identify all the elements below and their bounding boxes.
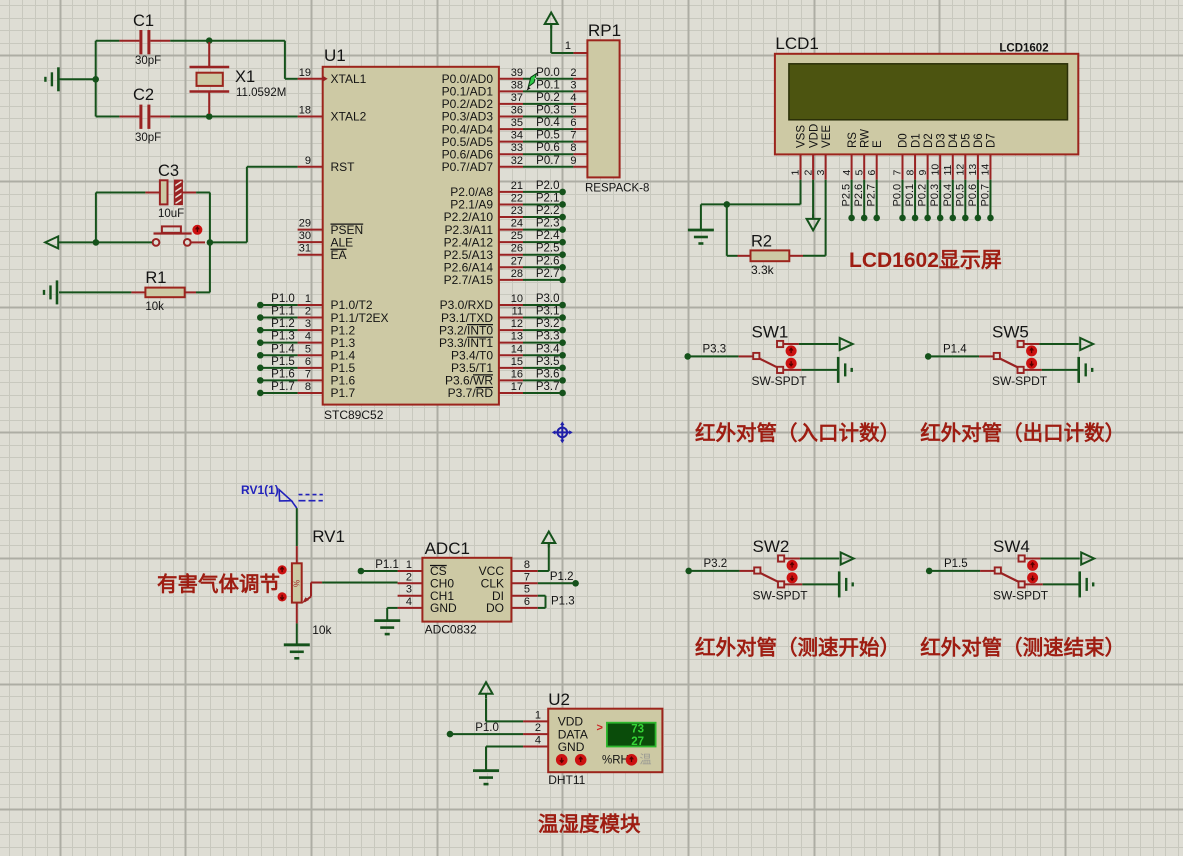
svg-text:SW2: SW2 [753, 537, 790, 556]
svg-text:P2.6: P2.6 [853, 184, 865, 207]
label ADC0832 [425, 623, 477, 637]
svg-text:VEE: VEE [821, 125, 833, 148]
wire button right [191, 241, 205, 243]
svg-text:5: 5 [570, 104, 576, 116]
svg-text:RP1: RP1 [588, 21, 621, 40]
label C2 [133, 86, 154, 104]
caption infrared exit [920, 421, 1125, 445]
caption infrared entry [695, 421, 900, 445]
svg-text:P2.1: P2.1 [536, 192, 560, 204]
switch SW5 infrared exit [925, 323, 1093, 389]
wire VEE to R2 [803, 180, 826, 256]
probe RV1(1) [241, 483, 323, 508]
label DHT11 [548, 773, 585, 787]
svg-text:ADC1: ADC1 [425, 539, 470, 558]
svg-text:24: 24 [511, 218, 523, 230]
svg-text:U1: U1 [324, 46, 346, 65]
svg-text:P1.3: P1.3 [271, 331, 295, 343]
label X1 [235, 68, 255, 86]
svg-text:2: 2 [305, 306, 311, 318]
svg-text:RW: RW [859, 129, 871, 148]
svg-text:SW-SPDT: SW-SPDT [753, 589, 809, 603]
svg-text:15: 15 [511, 356, 523, 368]
svg-text:DO: DO [486, 601, 504, 615]
svg-text:P2.6: P2.6 [536, 255, 560, 267]
resistor R2 [738, 250, 804, 261]
net P1.2 [538, 571, 579, 587]
terminal arrow reset [45, 236, 58, 248]
svg-text:XTAL2: XTAL2 [331, 110, 367, 124]
label LCD1602 model [999, 43, 1048, 55]
svg-text:X1: X1 [235, 68, 255, 86]
svg-text:P1.4: P1.4 [271, 343, 295, 355]
svg-text:EA: EA [331, 248, 347, 262]
svg-text:P2.5: P2.5 [841, 184, 853, 207]
svg-text:P3.7/RD: P3.7/RD [448, 386, 494, 400]
RV1 wiper [302, 583, 311, 604]
wire C3 down left [95, 193, 97, 243]
wire VSS to ground [701, 180, 801, 230]
svg-text:16: 16 [511, 368, 523, 380]
svg-text:D3: D3 [935, 133, 947, 148]
svg-text:P2.3: P2.3 [536, 218, 560, 230]
lcd LCD1 body [775, 54, 1078, 155]
lcd data and control nets P2.5-P2.7 P0.0-P0.7 [841, 180, 994, 222]
svg-text:P0.7/AD7: P0.7/AD7 [442, 160, 494, 174]
caption LCD1602 display [849, 249, 1002, 272]
svg-text:14: 14 [511, 343, 523, 355]
svg-text:P0.7: P0.7 [536, 155, 560, 167]
svg-text:P0.4: P0.4 [942, 184, 954, 207]
dht buttons [556, 753, 652, 767]
wire reset to RST [210, 167, 298, 243]
RV1 toggle up [278, 565, 287, 574]
svg-text:9: 9 [305, 155, 311, 167]
ADC1 left pins CS CH0 CH1 GND [398, 559, 457, 615]
svg-text:4: 4 [570, 92, 576, 104]
svg-text:12: 12 [511, 318, 523, 330]
svg-text:P0.5: P0.5 [954, 184, 966, 207]
svg-text:35: 35 [511, 117, 523, 129]
wire C3 left [96, 192, 159, 194]
svg-text:温湿度模块: 温湿度模块 [538, 812, 641, 836]
crystal X1 [190, 42, 230, 114]
label RV1 [312, 527, 345, 546]
U2 VDD wire [486, 698, 523, 721]
label 10k RV1 [312, 623, 332, 637]
svg-text:SW1: SW1 [752, 323, 789, 342]
wire C3 down right [209, 193, 211, 293]
node X1 bottom [206, 113, 213, 120]
dht display [597, 722, 656, 748]
respack RP1 body [587, 40, 619, 177]
wire wiper to ADC CH0 [311, 582, 398, 584]
svg-text:P1.4: P1.4 [943, 344, 967, 356]
label 10k R1 [145, 301, 164, 313]
svg-text:P0.7: P0.7 [979, 184, 991, 207]
svg-text:27: 27 [631, 736, 644, 748]
svg-text:2: 2 [406, 571, 412, 583]
svg-text:P3.2: P3.2 [536, 318, 560, 330]
svg-text:10uF: 10uF [158, 208, 184, 220]
node VSS R2 [724, 201, 731, 208]
node reset left [93, 239, 100, 246]
RV1 bottom lead [296, 603, 298, 645]
svg-text:7: 7 [305, 368, 311, 380]
svg-text:5: 5 [524, 584, 530, 596]
U1 port0 pins P0.0/AD0-P0.7/AD7 to RP1 [442, 67, 588, 174]
U1 left pins XTAL1 XTAL2 RST PSEN ALE EA [298, 67, 367, 262]
svg-text:P0.3: P0.3 [536, 104, 560, 116]
wire caps left [96, 41, 120, 117]
svg-text:33: 33 [511, 142, 523, 154]
svg-text:P1.6: P1.6 [271, 368, 295, 380]
net P1.3 bracket [538, 596, 575, 608]
ground ADC [374, 621, 400, 635]
svg-text:30pF: 30pF [135, 55, 161, 67]
svg-text:红外对管（测速结束）: 红外对管（测速结束） [920, 636, 1125, 660]
svg-text:29: 29 [299, 218, 311, 230]
svg-text:P0.4: P0.4 [536, 117, 560, 129]
power down VDD [807, 214, 820, 230]
svg-text:P1.0: P1.0 [475, 722, 499, 734]
svg-text:D1: D1 [910, 133, 922, 148]
button toggle [192, 225, 202, 235]
svg-text:R1: R1 [145, 269, 166, 287]
wire C1 to X1 node [170, 40, 285, 42]
svg-text:8: 8 [305, 381, 311, 393]
svg-text:D0: D0 [898, 133, 910, 148]
svg-text:P3.3: P3.3 [703, 344, 727, 356]
svg-text:1: 1 [406, 559, 412, 571]
svg-text:RESPACK-8: RESPACK-8 [585, 183, 649, 195]
svg-text:P0.1: P0.1 [904, 184, 916, 207]
resistor R1 [59, 288, 210, 298]
wire probe to RV1 [296, 508, 298, 563]
U2 pins VDD DATA GND [523, 709, 588, 753]
svg-text:39: 39 [511, 67, 523, 79]
svg-text:6: 6 [866, 170, 878, 176]
label ADC1 [425, 539, 470, 558]
svg-text:37: 37 [511, 92, 523, 104]
svg-text:%: % [293, 580, 302, 587]
svg-text:17: 17 [511, 381, 523, 393]
net P1.0 [447, 722, 523, 737]
svg-text:R2: R2 [751, 233, 772, 251]
svg-text:9: 9 [917, 170, 929, 176]
svg-text:12: 12 [955, 164, 967, 176]
svg-text:P1.7: P1.7 [271, 381, 295, 393]
svg-text:P0.6: P0.6 [536, 142, 560, 154]
svg-text:23: 23 [511, 205, 523, 217]
label C3 [158, 162, 179, 180]
svg-text:1: 1 [535, 709, 541, 721]
label 3.3k [751, 263, 775, 277]
label STC89C52 [324, 408, 384, 422]
wire terminal to button [58, 241, 152, 243]
svg-text:DHT11: DHT11 [548, 773, 585, 787]
svg-text:3: 3 [570, 79, 576, 91]
svg-text:ADC0832: ADC0832 [425, 623, 477, 637]
label C1 [133, 12, 154, 30]
svg-text:73: 73 [631, 724, 644, 736]
svg-text:2: 2 [570, 67, 576, 79]
svg-text:2: 2 [802, 170, 814, 176]
svg-text:4: 4 [841, 170, 853, 176]
svg-text:8: 8 [570, 142, 576, 154]
svg-text:D6: D6 [973, 133, 985, 148]
svg-text:P3.7: P3.7 [536, 381, 560, 393]
svg-text:VSS: VSS [796, 125, 808, 148]
label U1 [324, 46, 346, 65]
svg-text:1: 1 [565, 40, 571, 52]
mcu U1 body [323, 67, 499, 405]
label 30pF C2 [135, 132, 161, 144]
svg-text:RV1(1): RV1(1) [241, 483, 279, 497]
svg-text:P2.5: P2.5 [536, 243, 560, 255]
svg-text:P1.5: P1.5 [944, 558, 968, 570]
switch SW4 speed end [926, 537, 1094, 603]
svg-text:P1.5: P1.5 [271, 356, 295, 368]
svg-text:10: 10 [929, 164, 941, 176]
svg-text:7: 7 [524, 571, 530, 583]
svg-text:P3.0: P3.0 [536, 293, 560, 305]
svg-text:P1.7: P1.7 [331, 386, 356, 400]
svg-text:P1.2: P1.2 [271, 318, 295, 330]
svg-text:3: 3 [815, 170, 827, 176]
svg-text:LCD1: LCD1 [775, 34, 818, 53]
svg-text:P1.3: P1.3 [551, 596, 575, 608]
node reset right [207, 239, 214, 246]
svg-text:RST: RST [331, 160, 356, 174]
svg-text:22: 22 [511, 192, 523, 204]
svg-text:19: 19 [299, 67, 311, 79]
svg-text:SW4: SW4 [993, 537, 1030, 556]
label U2 [548, 690, 570, 709]
svg-text:9: 9 [570, 155, 576, 167]
svg-text:P3.4: P3.4 [536, 343, 560, 355]
U1 port2 pins P2.0/A8-P2.7/A15 with net labels [444, 180, 566, 287]
svg-text:28: 28 [511, 268, 523, 280]
ADC1 right pins VCC CLK DI DO [479, 559, 538, 615]
svg-text:RS: RS [847, 132, 859, 148]
svg-text:P2.7/A15: P2.7/A15 [444, 273, 494, 287]
ADC GND wire [387, 608, 397, 621]
label LCD1 [775, 34, 818, 53]
ground R1 [44, 280, 57, 304]
svg-text:14: 14 [980, 164, 992, 176]
caption speed start [695, 636, 900, 660]
svg-text:P0.0: P0.0 [892, 184, 904, 207]
svg-text:P3.1: P3.1 [536, 306, 560, 318]
svg-text:D5: D5 [961, 133, 973, 148]
ground LCD [688, 230, 714, 244]
svg-text:7: 7 [892, 170, 904, 176]
svg-text:8: 8 [904, 170, 916, 176]
power arrow RP1 [545, 13, 558, 29]
label R2 [751, 233, 772, 251]
svg-text:18: 18 [299, 104, 311, 116]
switch SW1 infrared entry [684, 323, 852, 389]
capacitor C3 plates [160, 180, 182, 210]
svg-text:D4: D4 [948, 133, 960, 148]
svg-text:LCD1602显示屏: LCD1602显示屏 [849, 249, 1002, 272]
potentiometer RV1 body [292, 563, 302, 602]
wire node to R2 [727, 204, 738, 255]
ground RV1 [284, 645, 310, 659]
svg-text:P1.0: P1.0 [271, 293, 295, 305]
svg-text:红外对管（出口计数）: 红外对管（出口计数） [920, 421, 1125, 445]
capacitor C2 [119, 105, 170, 129]
svg-text:P0.2: P0.2 [917, 184, 929, 207]
svg-text:34: 34 [511, 130, 523, 142]
wire to XTAL1 pin19 [285, 41, 298, 79]
svg-text:P1.1: P1.1 [375, 559, 399, 571]
label RP1 [588, 21, 621, 40]
svg-text:SW-SPDT: SW-SPDT [752, 374, 808, 388]
svg-text:U2: U2 [548, 690, 570, 709]
lcd pin stubs and numbers [790, 154, 992, 179]
svg-text:4: 4 [406, 596, 412, 608]
svg-text:红外对管（入口计数）: 红外对管（入口计数） [695, 421, 900, 445]
svg-text:P1.2: P1.2 [550, 571, 574, 583]
svg-text:38: 38 [511, 79, 523, 91]
svg-text:2: 2 [535, 722, 541, 734]
svg-text:P0.6: P0.6 [967, 184, 979, 207]
svg-text:P3.2: P3.2 [704, 558, 728, 570]
label RESPACK-8 [585, 183, 649, 195]
lcd screen [789, 64, 1068, 120]
svg-text:P2.4: P2.4 [536, 230, 560, 242]
svg-text:7: 7 [570, 130, 576, 142]
svg-text:SW5: SW5 [992, 323, 1029, 342]
RP1 pin1 [551, 24, 587, 53]
svg-text:11.0592M: 11.0592M [236, 87, 286, 99]
svg-text:VDD: VDD [808, 124, 820, 148]
power arrow U2 [480, 682, 493, 698]
pin marker XTAL1 [323, 76, 328, 82]
svg-text:6: 6 [570, 117, 576, 129]
svg-text:4: 4 [535, 735, 541, 747]
svg-text:6: 6 [305, 356, 311, 368]
svg-text:XTAL1: XTAL1 [331, 72, 367, 86]
svg-text:P2.2: P2.2 [536, 205, 560, 217]
svg-text:5: 5 [305, 343, 311, 355]
svg-text:32: 32 [511, 155, 523, 167]
svg-text:%RH: %RH [602, 755, 629, 767]
svg-text:P2.7: P2.7 [866, 184, 878, 207]
svg-text:30pF: 30pF [135, 132, 161, 144]
svg-text:3: 3 [305, 318, 311, 330]
wire to ground [58, 78, 95, 80]
U1 port3 pins P3.0/RXD-P3.7/RD with net labels [439, 293, 566, 400]
cursor pencil [527, 74, 538, 91]
svg-text:3: 3 [406, 584, 412, 596]
svg-text:SW-SPDT: SW-SPDT [992, 374, 1048, 388]
svg-text:P0.3: P0.3 [929, 184, 941, 207]
lcd pin names [796, 124, 998, 148]
U2 GND wire [486, 747, 523, 771]
power arrow ADC [542, 532, 555, 548]
label 10uF [158, 208, 184, 220]
svg-text:4: 4 [305, 331, 311, 343]
svg-text:D2: D2 [923, 133, 935, 148]
svg-text:有害气体调节: 有害气体调节 [157, 572, 280, 596]
svg-text:31: 31 [299, 243, 311, 255]
label 11.0592M [236, 87, 286, 99]
svg-text:26: 26 [511, 243, 523, 255]
wire C3 right [182, 192, 210, 194]
node gnd branch [92, 76, 99, 83]
svg-text:P0.5: P0.5 [536, 130, 560, 142]
U1 port1 pins P1.0-P1.7 with net labels [257, 293, 389, 400]
svg-text:STC89C52: STC89C52 [324, 408, 384, 422]
svg-text:红外对管（测速开始）: 红外对管（测速开始） [695, 636, 900, 660]
caption gas adjust [157, 572, 280, 596]
svg-text:25: 25 [511, 230, 523, 242]
svg-text:P3.5: P3.5 [536, 356, 560, 368]
svg-text:GND: GND [558, 740, 585, 754]
svg-text:P0.2: P0.2 [536, 92, 560, 104]
svg-text:5: 5 [853, 170, 865, 176]
svg-text:13: 13 [511, 331, 523, 343]
svg-text:C1: C1 [133, 12, 154, 30]
svg-text:8: 8 [524, 559, 530, 571]
ground crystal [45, 67, 58, 91]
ADC VCC wire [538, 544, 549, 571]
svg-text:E: E [872, 140, 884, 148]
adc ADC1 body [422, 558, 511, 622]
wire VDD [812, 180, 814, 218]
ground U2 [473, 771, 499, 785]
svg-text:1: 1 [790, 170, 802, 176]
switch SW2 speed start [685, 537, 853, 603]
svg-text:P3.6: P3.6 [536, 368, 560, 380]
reset button [153, 226, 192, 245]
svg-text:10k: 10k [145, 301, 164, 313]
svg-text:11: 11 [512, 306, 523, 318]
svg-text:11: 11 [942, 164, 954, 175]
svg-text:D7: D7 [986, 133, 998, 148]
caption speed end [920, 636, 1125, 660]
svg-text:C3: C3 [158, 162, 179, 180]
svg-text:3.3k: 3.3k [751, 263, 775, 277]
svg-text:27: 27 [511, 255, 523, 267]
svg-text:30: 30 [299, 230, 311, 242]
node X1 top [206, 37, 213, 44]
svg-text:36: 36 [511, 104, 523, 116]
svg-text:10k: 10k [312, 623, 332, 637]
svg-text:C2: C2 [133, 86, 154, 104]
svg-text:P0.1: P0.1 [536, 79, 560, 91]
svg-text:13: 13 [967, 164, 979, 176]
label R1 [145, 269, 166, 287]
capacitor C1 [119, 30, 170, 54]
net P1.1 [358, 559, 399, 574]
caption temp humidity module [538, 812, 641, 836]
svg-text:RV1: RV1 [312, 527, 345, 546]
svg-text:P3.3: P3.3 [536, 331, 560, 343]
label 30pF C1 [135, 55, 161, 67]
svg-text:>: > [597, 722, 603, 734]
svg-text:GND: GND [430, 601, 457, 615]
svg-text:21: 21 [511, 180, 523, 192]
svg-text:P2.7: P2.7 [536, 268, 560, 280]
svg-text:P1.1: P1.1 [271, 306, 295, 318]
wire C2 to XTAL2 pin18 [170, 116, 297, 118]
RV1 toggle down [278, 592, 287, 601]
svg-text:1: 1 [305, 293, 311, 305]
